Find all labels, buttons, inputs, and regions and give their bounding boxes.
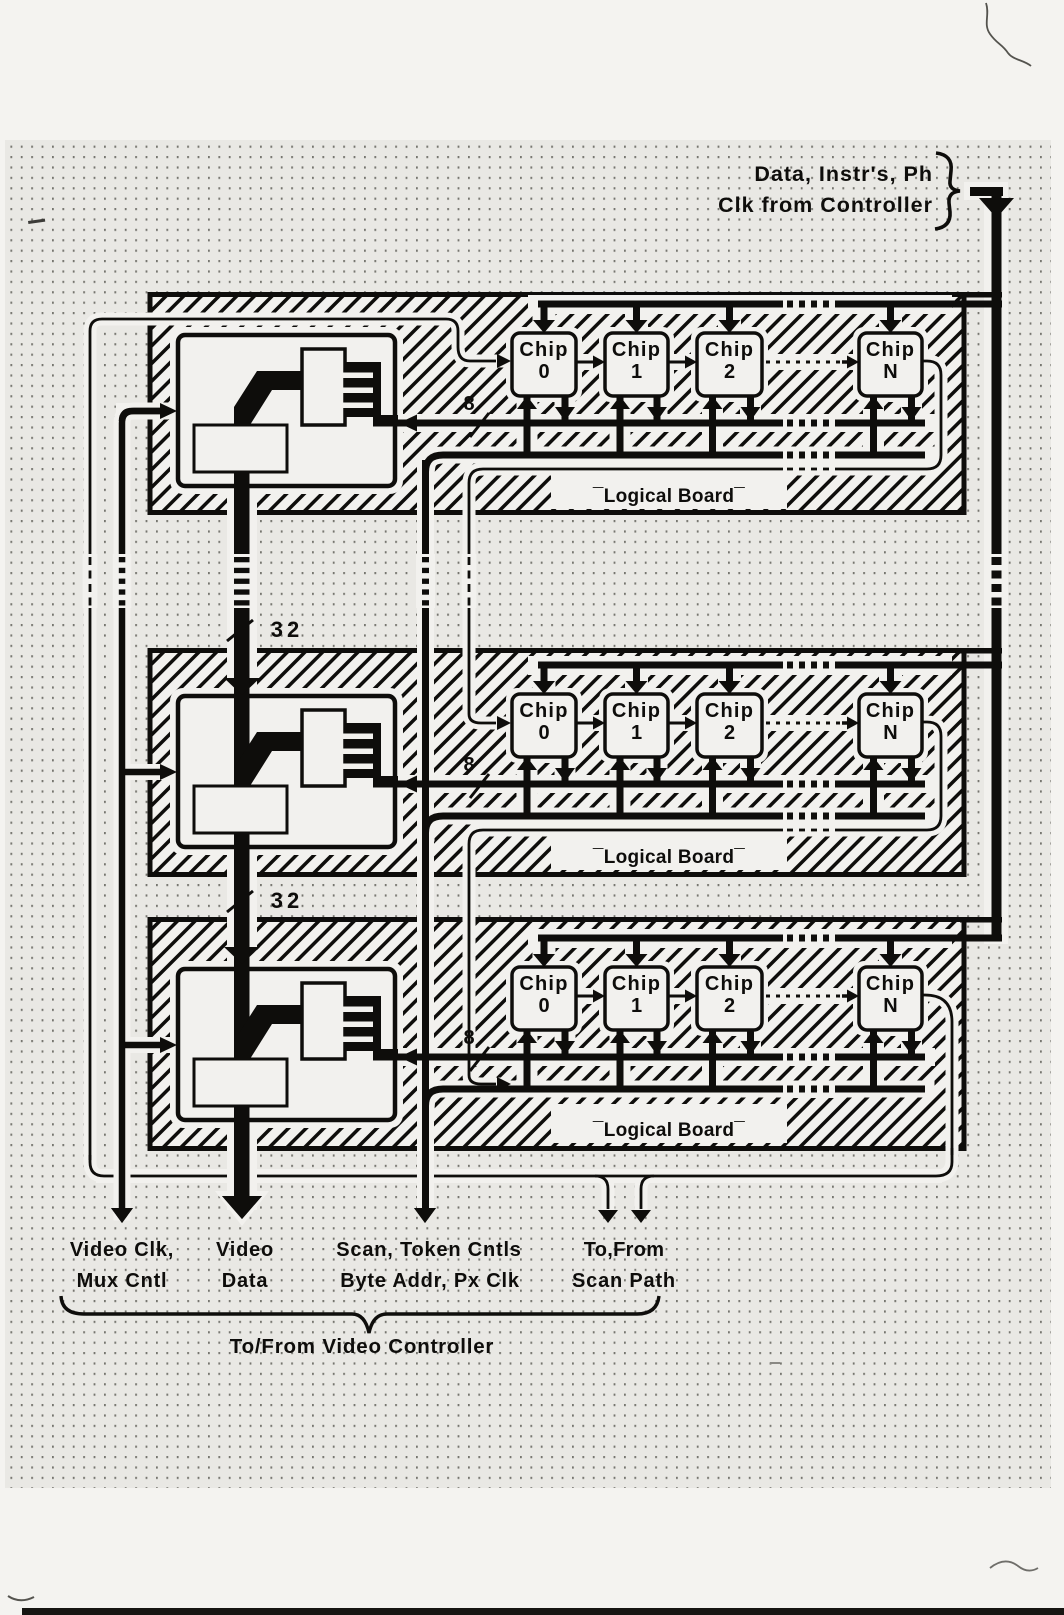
board 2 chip read pin x=750.5 [747,757,754,783]
board 1 chip read pin x=911.5 [908,396,915,422]
board 1 chip top pin x=636.5 [633,305,640,321]
board 1 feed line continuation dashes [783,296,835,312]
svg-text:Chip: Chip [519,339,568,361]
board 2 memory chip N [859,694,922,757]
scan speck [28,219,45,224]
board 1 clearances [528,295,952,314]
svg-text:N: N [883,995,897,1017]
controller bus top bar [970,187,1003,196]
board 2 return dashes [783,823,835,836]
svg-text:Chip: Chip [612,339,661,361]
scan token line clearance [417,460,434,1212]
svg-text:Data, Instr's, Ph: Data, Instr's, Ph [754,162,933,186]
board 1 chip read pin x=750.5 [747,396,754,422]
board 2 feed line continuation dashes [783,657,835,673]
board 3 latch (bottom box) [194,1059,287,1106]
svg-text:Clk from Controller: Clk from Controller [718,193,933,217]
board 1 memory chip N [859,333,922,396]
board 3 chip read pin x=657 [654,1030,661,1056]
board 2 chip top pin x=890.5 [887,666,894,682]
svg-text:Data: Data [222,1270,269,1292]
video data bus clearance [227,480,257,1210]
under-brace [61,1296,659,1333]
svg-text:To/From Video Controller: To/From Video Controller [230,1335,494,1358]
board 1 chip read pin x=565 [562,396,569,422]
board 2 memory chip 0 [512,694,576,757]
board 3 bus continuation dashes [783,1048,835,1065]
board 3 8-bit data bus [381,1054,925,1061]
board 2 memory chip 1 [605,694,668,757]
svg-text:¯Logical Board¯: ¯Logical Board¯ [592,847,745,868]
board 3 memory chip 1 [605,967,668,1030]
continuation break dashes between board 1 and 2 [83,554,98,608]
svg-text:Chip: Chip [519,973,568,995]
video data bus arrowhead [222,1196,262,1219]
board 2 clearances [528,656,952,675]
board 1 8-bit data bus [381,420,925,427]
svg-text:N: N [883,361,897,383]
logical board 1 outline and hatch [150,295,964,513]
board 3 chip write pin x=712.5 [709,1030,716,1092]
controller bus arrowhead [979,198,1014,218]
svg-text:1: 1 [631,722,642,744]
board 2 8-bit data bus [381,781,925,788]
board 3 memory chip N [859,967,922,1030]
board 2 scan return path [469,722,941,1084]
board 1 shift register (tall box) [302,349,345,425]
bottom scan path line [90,1148,952,1176]
board 3 feed line continuation dashes [783,930,835,946]
board 3 serial taps [345,996,381,1051]
board 2 latch (bottom box) [194,786,287,833]
svg-text:0: 0 [538,722,549,744]
svg-text:Video: Video [216,1239,274,1261]
board 3 scan return path [922,995,952,1155]
board 1 chip top pin x=544 [541,305,548,321]
scan token cntls line [422,460,429,1208]
board 1 memory chip 0 [512,333,576,396]
board 1 memory chip 1 [605,333,668,396]
board 2 chip write pin x=873.5 [870,757,877,819]
board 3 chip top pin x=544 [541,939,548,955]
board 3 top border extension to controller bus [960,917,1002,923]
svg-text:1: 1 [631,995,642,1017]
svg-text:Video Clk,: Video Clk, [70,1239,174,1261]
svg-text:0: 0 [538,361,549,383]
video clk / mux cntl line [122,411,160,1208]
bottom scan edge [22,1608,1064,1615]
board 1 chip write pin x=527 [524,396,531,458]
svg-text:Chip: Chip [612,973,661,995]
board 1 bus elbow [234,371,302,425]
svg-text:2: 2 [724,361,735,383]
controller bus vertical [992,194,1002,940]
board 2 chip top pin x=729.5 [726,666,733,682]
video data bus (32-bit) vertical [234,466,250,1198]
board 1 video clk entry arrow [122,411,162,421]
scan speck [770,1362,780,1364]
video clk line over scan line [114,1156,131,1208]
board 2 top feed line [538,662,1002,669]
board 2 video clk entry arrow [119,769,162,776]
svg-text:Chip: Chip [705,973,754,995]
board 3 bus elbow [234,1005,302,1059]
board 1 chip read pin x=657 [654,396,661,422]
svg-text:Chip: Chip [519,700,568,722]
board 3 memory chip 0 [512,967,576,1030]
board 1 chip write pin x=620 [617,396,624,458]
board 2 chip top pin x=636.5 [633,666,640,682]
board 1 chip top pin x=729.5 [726,305,733,321]
board 3 chip write pin x=620 [617,1030,624,1092]
board 2 chip read pin x=657 [654,757,661,783]
svg-text:Chip: Chip [866,973,915,995]
board 3 chip serial chain [576,995,594,998]
board 2 shift register (tall box) [302,710,345,786]
svg-text:Byte Addr, Px Clk: Byte Addr, Px Clk [340,1270,520,1292]
board 3 chip write pin x=527 [524,1030,531,1092]
board 2 bus continuation dashes [783,775,835,792]
board 2 top border extension to controller bus [960,648,1002,654]
board 1 VRAM controller block [178,335,395,486]
board 3 chip read pin x=911.5 [908,1030,915,1056]
board 3 chip read pin x=750.5 [747,1030,754,1056]
board 3 VRAM controller block [178,969,395,1120]
scan-in wire into board 1 [90,319,496,1160]
board 2 memory chip 2 [697,694,762,757]
bus entry arrowhead board 3 [224,947,260,964]
board 3 clearances [528,929,952,948]
video data bus over scan line [227,1153,257,1196]
svg-text:Scan, Token Cntls: Scan, Token Cntls [336,1239,522,1261]
board 1 scan return path [469,361,941,723]
board 2 chip write pin x=527 [524,757,531,819]
bottom scan path line clearance [96,1169,942,1183]
controller bus: white clearance [984,182,1008,944]
svg-text:Mux Cntl: Mux Cntl [77,1270,168,1292]
board 1 chip write pin x=873.5 [870,396,877,458]
logical board 2 outline and hatch [150,651,964,875]
svg-text:¯Logical Board¯: ¯Logical Board¯ [592,486,745,507]
scan scratch top right [986,3,1031,66]
from scan path drop [641,1176,654,1209]
board 1 top feed line [538,301,1002,308]
board 1 top border extension to controller bus [960,292,1002,298]
board 3 chip top pin x=636.5 [633,939,640,955]
svg-text:To,From: To,From [584,1239,665,1261]
board 2 chip serial chain [576,722,594,725]
svg-text:8: 8 [463,754,474,776]
svg-text:32: 32 [271,888,303,913]
board 1 chip top pin x=890.5 [887,305,894,321]
board 1 latch (bottom box) [194,425,287,472]
svg-text:8: 8 [463,393,474,415]
svg-text:2: 2 [724,722,735,744]
mux/clk line clearance [122,411,160,1212]
svg-text:Scan Path: Scan Path [572,1270,676,1292]
bus entry arrowhead board 2 [224,678,260,695]
logical board 3 outline and hatch [150,920,964,1149]
board 3 chip top pin x=890.5 [887,939,894,955]
board 3 top feed line [538,935,1002,942]
svg-text:Chip: Chip [705,339,754,361]
svg-text:0: 0 [538,995,549,1017]
svg-text:¯Logical Board¯: ¯Logical Board¯ [592,1120,745,1141]
svg-text:N: N [883,722,897,744]
board 3 shift register (tall box) [302,983,345,1059]
board 1 chip write pin x=712.5 [709,396,716,458]
to scan path drop [595,1176,608,1209]
board 1 bus continuation dashes [783,414,835,431]
board 3 chip write pin x=873.5 [870,1030,877,1092]
board 1 chip serial chain [576,361,594,364]
board 2 chip read pin x=911.5 [908,757,915,783]
board 3 control bus [426,1089,926,1106]
board 2 chip read pin x=565 [562,757,569,783]
svg-text:8: 8 [463,1027,474,1049]
board 1 control bus [426,455,926,472]
scan token line over scan line [417,1153,434,1208]
board 3 chip top pin x=729.5 [726,939,733,955]
board 2 chip write pin x=620 [617,757,624,819]
svg-text:Chip: Chip [612,700,661,722]
scan-in wire clearance [90,319,500,1160]
board 2 serial taps [345,723,381,778]
board 1 return dashes [783,462,835,475]
svg-text:1: 1 [631,361,642,383]
board 3 memory chip 2 [697,967,762,1030]
board 2 VRAM controller block [178,696,395,847]
board 3 chip read pin x=565 [562,1030,569,1056]
svg-text:2: 2 [724,995,735,1017]
brace [935,153,960,229]
svg-text:Chip: Chip [866,339,915,361]
svg-text:Chip: Chip [866,700,915,722]
board 3 video clk entry arrow [119,1042,162,1049]
svg-text:Chip: Chip [705,700,754,722]
svg-text:32: 32 [271,617,303,642]
board 2 chip top pin x=544 [541,666,548,682]
board 1 memory chip 2 [697,333,762,396]
board 1 serial taps [345,362,381,417]
board 2 control bus [426,816,926,833]
board 2 bus elbow [234,732,302,786]
board 2 chip write pin x=712.5 [709,757,716,819]
